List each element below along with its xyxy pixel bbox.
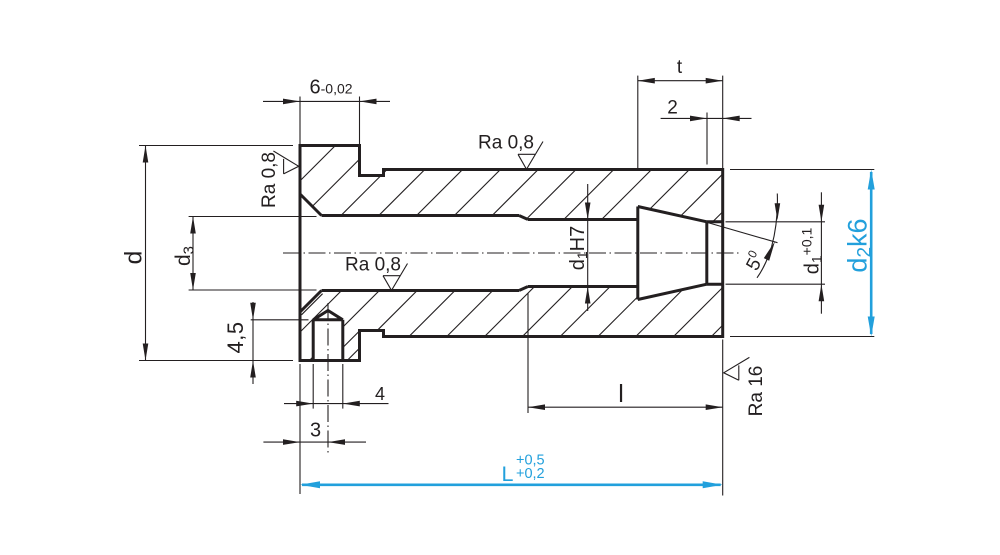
hatching (section lines) (78, 140, 946, 365)
left face extension line down (299, 364, 301, 494)
dim d2k6 line (blue) (870, 172, 873, 334)
hole centerline (327, 303, 329, 456)
taper top slant (638, 207, 707, 222)
surface symbol Ra 16 right (724, 357, 750, 380)
svg-text:l: l (618, 380, 624, 408)
hole right extension line (342, 364, 344, 409)
land bottom edge (707, 283, 723, 286)
dim d3 arrows (190, 217, 196, 234)
bore d3 top edge (322, 214, 520, 217)
dim d1+0,1 line (820, 192, 822, 313)
dim 6-0,02 extension lines (299, 97, 301, 145)
svg-text:6-0,02: 6-0,02 (310, 77, 353, 99)
svg-text:4: 4 (375, 384, 385, 404)
dim d2k6 extension lines (730, 169, 874, 171)
svg-text:L: L (502, 462, 514, 486)
dim d1+0,1 arrows (819, 205, 825, 222)
svg-text:d2k6: d2k6 (843, 218, 876, 272)
dim t extension lines (637, 76, 639, 168)
svg-text:t: t (677, 57, 683, 78)
bore step chamfer bottom (519, 287, 528, 291)
dim L line (blue) (302, 483, 721, 486)
dim d1H7 arrows (585, 203, 591, 220)
countersink chamfer bottom (300, 291, 322, 313)
dim l arrows (528, 404, 545, 410)
dim d line (145, 146, 147, 361)
dim L arrows (blue) (300, 481, 320, 488)
hole left extension line (312, 364, 314, 409)
countersink chamfer top (300, 194, 322, 216)
dim 2 extension line (706, 113, 708, 165)
dim 3 line (263, 441, 366, 443)
5deg arc (757, 194, 777, 278)
bore d3 bottom edge (322, 289, 520, 292)
5deg leader line (708, 223, 778, 243)
dim l line (528, 406, 723, 408)
bore step chamfer top (519, 216, 528, 220)
dim 3 arrows (283, 439, 300, 445)
taper big-end face (636, 207, 639, 300)
dim 4 line (284, 403, 389, 405)
dim 6-0,02 line (263, 100, 390, 102)
taper small-end face (705, 222, 708, 284)
dim 2 arrows (690, 116, 707, 122)
svg-text:3: 3 (310, 420, 321, 442)
surface symbol Ra 0,8 top (518, 142, 543, 170)
svg-text:d3: d3 (172, 246, 198, 266)
svg-text:4,5: 4,5 (223, 321, 248, 353)
surface symbol Ra 0,8 middle (383, 264, 408, 291)
part outer profile (300, 146, 723, 361)
dim 4,5 extension line (251, 319, 309, 321)
dim d3 extension lines (189, 216, 317, 218)
hatch line along chamfer (302, 294, 323, 315)
land top edge (707, 220, 723, 223)
bore d1H7 top edge (528, 218, 638, 221)
dim d3 line (192, 217, 194, 291)
surface symbol Ra 0,8 left (273, 151, 298, 174)
dim 2 line (661, 117, 752, 119)
dim d2k6 arrows (blue) (868, 170, 875, 190)
dim 4,5 line (252, 302, 254, 384)
bottom hole outline (313, 311, 343, 361)
dim d1H7 line (587, 184, 589, 311)
dim d arrows (143, 146, 149, 163)
taper bottom slant (638, 284, 707, 299)
dim d extension lines (139, 145, 293, 147)
svg-text:Ra 0,8: Ra 0,8 (478, 133, 534, 154)
dim t arrows (638, 78, 655, 84)
svg-text:Ra 0,8: Ra 0,8 (345, 255, 401, 276)
dim d1+0,1 extension lines (726, 221, 826, 223)
bore d1H7 bottom edge (528, 285, 638, 288)
svg-text:2: 2 (667, 98, 678, 119)
dim 6-0,02 arrows (283, 99, 300, 105)
dim 4,5 arrows (250, 303, 256, 320)
svg-text:50: 50 (740, 247, 769, 274)
svg-text:d1+0,1: d1+0,1 (799, 228, 825, 275)
dim l extension line left (527, 293, 529, 413)
main centerline (283, 252, 741, 254)
svg-text:+0,2: +0,2 (516, 466, 545, 482)
svg-text:Ra 0,8: Ra 0,8 (259, 152, 280, 208)
5deg arc arrows (775, 203, 781, 220)
svg-text:Ra 16: Ra 16 (746, 366, 767, 417)
svg-text:d: d (121, 251, 148, 265)
svg-text:d1H7: d1H7 (567, 226, 590, 271)
dim t line (638, 80, 723, 82)
hatch line at flange step (344, 331, 360, 347)
dim 4 arrows (296, 401, 313, 407)
right face extension line down (722, 340, 724, 496)
